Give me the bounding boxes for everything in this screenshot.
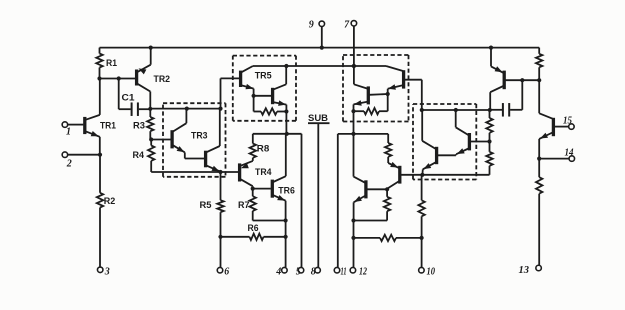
svg-text:R2: R2 (104, 196, 116, 207)
svg-text:R6: R6 (248, 223, 259, 234)
svg-text:C1: C1 (122, 92, 136, 103)
svg-text:8: 8 (311, 266, 316, 277)
svg-text:2: 2 (66, 159, 72, 170)
svg-text:R8: R8 (257, 143, 270, 154)
svg-text:6: 6 (224, 266, 229, 277)
svg-text:1: 1 (66, 127, 71, 138)
svg-text:R1: R1 (106, 58, 118, 69)
svg-text:4: 4 (275, 266, 281, 277)
svg-text:TR1: TR1 (100, 120, 117, 131)
svg-text:13: 13 (519, 265, 530, 276)
svg-text:TR6: TR6 (278, 185, 295, 196)
svg-text:TR5: TR5 (255, 70, 273, 81)
svg-text:11: 11 (341, 266, 347, 277)
svg-text:R4: R4 (133, 150, 145, 161)
svg-text:R5: R5 (200, 200, 213, 211)
svg-text:TR3: TR3 (191, 131, 208, 142)
svg-text:TR4: TR4 (255, 167, 272, 178)
svg-text:R3: R3 (133, 121, 145, 132)
svg-text:10: 10 (427, 266, 436, 277)
svg-text:12: 12 (359, 266, 367, 277)
svg-text:9: 9 (309, 20, 314, 31)
svg-text:R7: R7 (238, 200, 250, 211)
svg-text:3: 3 (104, 266, 110, 277)
svg-text:14: 14 (565, 147, 574, 158)
svg-text:15: 15 (563, 115, 572, 126)
svg-text:TR2: TR2 (154, 74, 171, 85)
svg-text:5: 5 (296, 266, 301, 277)
